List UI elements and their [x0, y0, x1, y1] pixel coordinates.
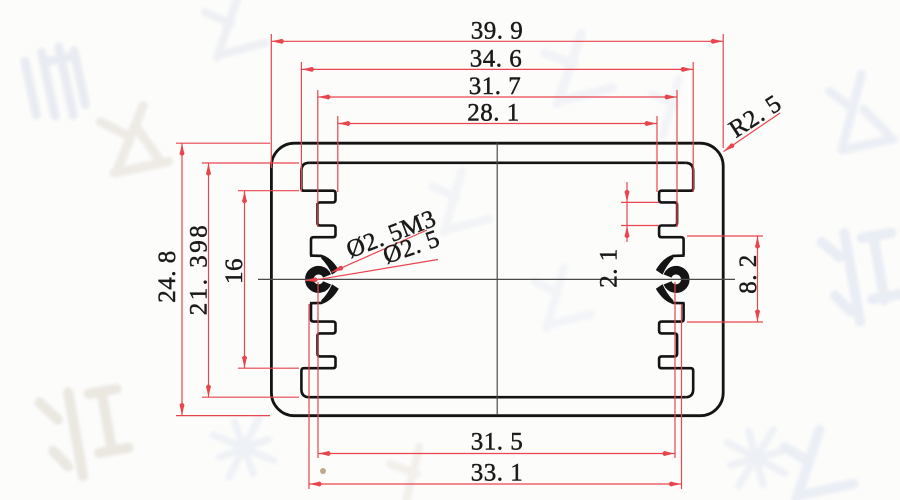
svg-text:39. 9: 39. 9: [471, 18, 524, 45]
svg-text:21. 398: 21. 398: [186, 223, 213, 316]
svg-text:34. 6: 34. 6: [470, 46, 523, 73]
arrow leader dia2.5M3: [331, 265, 344, 274]
dimension graphics: [176, 34, 780, 489]
profile outline outer: [271, 143, 723, 416]
arrows dim 34.6: [301, 67, 314, 72]
dim 33.1 lines: [309, 304, 682, 489]
profile inner shell: [310, 163, 694, 397]
boss upper ledge: [310, 254, 322, 257]
helper: left column is mirror of right: [301, 163, 335, 397]
screw boss C ring: [309, 270, 327, 288]
svg-text:31. 5: 31. 5: [471, 429, 524, 456]
boss upper beak: [321, 255, 339, 275]
arrows dim 16: [242, 191, 247, 204]
arrows dim 2.1: [625, 190, 630, 203]
dim 2.1 lines: [621, 182, 659, 242]
arrows dim 21.398: [206, 163, 211, 176]
svg-text:24. 8: 24. 8: [154, 250, 181, 303]
dim 8.2 lines: [687, 236, 763, 322]
dim 31.5 lines: [318, 282, 675, 458]
boss lower ledge: [310, 302, 322, 305]
boss right (mirror): [656, 255, 685, 304]
boss left: [309, 255, 338, 304]
arrows dim 33.1: [309, 482, 322, 487]
arrows dim 31.5: [318, 451, 331, 456]
boss lower beak: [321, 284, 339, 304]
arrows dim 31.7: [318, 95, 331, 100]
svg-text:28. 1: 28. 1: [467, 100, 520, 127]
dim 39.9 lines: [271, 34, 723, 168]
svg-text:8. 2: 8. 2: [735, 254, 762, 294]
centerline horizontal: [258, 278, 735, 280]
svg-text:2. 1: 2. 1: [596, 248, 623, 288]
arrows dim 8.2: [755, 236, 760, 249]
svg-text:31. 7: 31. 7: [469, 73, 522, 100]
arrows dim 39.9: [271, 39, 284, 44]
arrows dim 28.1: [338, 121, 351, 126]
artifact dot: [320, 468, 326, 474]
arrow leader R2.5: [722, 142, 735, 153]
arrow leader dia2.5: [305, 277, 318, 283]
dim 28.1 lines: [338, 116, 657, 192]
centerline vertical: [496, 143, 498, 416]
inner bottom wall: [310, 396, 686, 399]
left column: [659, 163, 693, 397]
dim 16 lines: [238, 191, 299, 369]
arrows dim 24.8: [180, 143, 185, 156]
svg-text:33. 1: 33. 1: [471, 460, 524, 487]
leader dia 2.5M3: [332, 230, 428, 272]
dim 31.7 lines: [318, 90, 677, 227]
dim 21.398 lines: [202, 163, 299, 397]
inner top wall: [310, 162, 686, 165]
dim 34.6 lines: [301, 62, 693, 192]
svg-text:16: 16: [221, 258, 248, 284]
leader dia 2.5: [305, 260, 438, 281]
leader R2.5: [724, 113, 781, 152]
dim 24.8 lines: [176, 143, 270, 415]
